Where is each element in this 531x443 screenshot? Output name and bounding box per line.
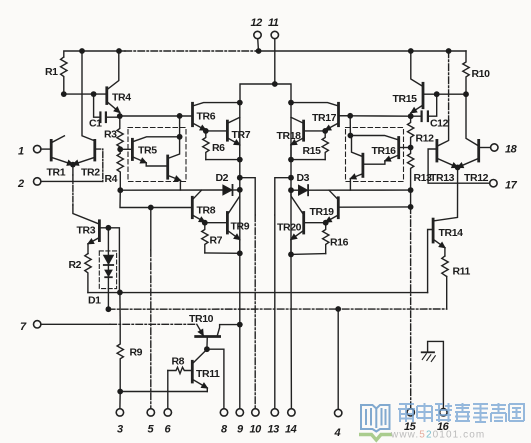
- svg-text:TR1: TR1: [47, 167, 66, 179]
- transistor TR5b: [166, 156, 169, 178]
- node common emitters TR12 TR13: [455, 165, 461, 171]
- TR16 dashed box: [346, 128, 404, 182]
- svg-text:2: 2: [17, 178, 24, 190]
- node R9 bottom: [117, 389, 123, 395]
- svg-text:TR10: TR10: [189, 313, 214, 325]
- node TR16 collector: [348, 133, 354, 139]
- svg-text:D2: D2: [216, 172, 229, 184]
- transistor TR20: [302, 213, 305, 234]
- wire TR5 collectors up to C1 line: [179, 116, 181, 137]
- svg-text:11: 11: [268, 17, 279, 29]
- svg-text:17: 17: [505, 180, 518, 192]
- watermark book base: [359, 435, 392, 441]
- wire TR13 base to pin 17: [428, 149, 490, 183]
- wire bias line R4 to D2: [120, 189, 223, 191]
- pin 11: [271, 31, 278, 38]
- node C1 bias: [117, 113, 123, 119]
- D1 bottom line to R11 bottom: [108, 308, 446, 310]
- wire R6 bottom to central node: [206, 159, 240, 161]
- wire TR8 emitter to TR9 base: [205, 222, 228, 224]
- node TR4 base: [61, 91, 67, 97]
- transistor TR2: [93, 140, 96, 160]
- svg-text:TR20: TR20: [277, 222, 302, 234]
- resistor R16: [323, 223, 329, 254]
- svg-text:R11: R11: [453, 266, 471, 278]
- transistor TR14: [432, 219, 435, 242]
- transistor TR17: [337, 103, 340, 125]
- svg-text:3: 3: [117, 424, 123, 436]
- node pin4 top: [335, 306, 341, 312]
- capacitor C1 wire left: [94, 94, 100, 117]
- wire TR15 base to R10 bottom: [423, 93, 466, 95]
- transistor TR12: [477, 140, 480, 161]
- node D3 anode: [288, 187, 294, 193]
- resistor R11: [442, 256, 448, 277]
- resistor R4: [117, 149, 123, 190]
- resistor R8: [168, 367, 193, 373]
- wire R13 node down: [410, 190, 412, 207]
- node pin11 bridge: [272, 81, 278, 87]
- pin 8: [220, 409, 227, 416]
- wire TR3 base to D1 top and corner: [99, 228, 119, 293]
- wire pin11 down to bridge: [274, 39, 276, 84]
- node pin10 branch: [237, 175, 243, 181]
- wire TR7 emitter to node: [239, 145, 241, 160]
- central vertical right (pin 14 line): [290, 103, 292, 409]
- wire TR5b emitter down to bias line: [179, 180, 181, 190]
- svg-text:TR19: TR19: [310, 206, 335, 218]
- svg-text:TR3: TR3: [77, 225, 96, 237]
- wire TR14 base: [428, 230, 434, 293]
- diode D1 upper: [103, 255, 113, 264]
- pin 18: [491, 144, 498, 151]
- wire R15 bottom to central node: [291, 159, 325, 161]
- resistor R15: [322, 131, 328, 160]
- wire pin16 to ground: [428, 341, 444, 408]
- pin 10: [252, 409, 259, 416]
- wire bias node to TR6 base: [120, 115, 192, 117]
- transistor TR9: [226, 213, 229, 234]
- svg-text:13: 13: [268, 424, 280, 436]
- resistor R13: [408, 148, 414, 191]
- wire R9 node down to pin 3: [119, 392, 121, 409]
- node pin13 branch: [288, 175, 294, 181]
- wire R1 bottom to TR4 base: [64, 93, 106, 95]
- resistor R9: [117, 324, 123, 391]
- pin 15 line: [410, 207, 412, 409]
- svg-text:TR16: TR16: [372, 145, 397, 157]
- svg-text:6: 6: [165, 424, 172, 436]
- transistor TR15: [422, 83, 425, 107]
- wire bridge to central verticals: [240, 84, 291, 103]
- svg-text:12: 12: [251, 17, 263, 29]
- TR5 dashed box: [128, 128, 186, 182]
- svg-text:R10: R10: [472, 68, 491, 80]
- node D1 bottom: [106, 306, 112, 312]
- wire pin1 to TR1 base: [41, 148, 51, 150]
- node R15 bottom: [288, 157, 294, 163]
- pin 13: [271, 409, 278, 416]
- resistor R3: [117, 116, 123, 149]
- node D2 cathode: [237, 187, 243, 193]
- node C12 bias: [347, 113, 353, 119]
- wire TR2 base to pin 2: [95, 149, 103, 181]
- node TR5 collector: [177, 134, 183, 140]
- pin 2: [34, 178, 41, 185]
- wire TR19 base to R13 node: [338, 206, 410, 208]
- top supply rail: [64, 51, 125, 57]
- wire TR6 emitter to TR7 base: [206, 130, 228, 132]
- svg-text:R7: R7: [210, 235, 223, 247]
- bias line R2 to TR14 base: [88, 292, 428, 294]
- svg-text:TR5: TR5: [138, 145, 157, 157]
- wire TR17 base from bias line: [339, 115, 351, 117]
- wire D3 node to pin13 line: [275, 178, 291, 215]
- wire pin5 vertical upper: [150, 208, 152, 251]
- svg-text:R2: R2: [69, 259, 82, 271]
- wire R16 bottom to central node: [291, 253, 326, 256]
- pin 9: [236, 409, 243, 416]
- pin 6: [164, 409, 171, 416]
- transistor TR19: [337, 198, 340, 218]
- svg-text:9: 9: [237, 424, 244, 436]
- transistor TR7: [226, 121, 229, 140]
- svg-text:10: 10: [250, 424, 263, 436]
- node TR10 base: [204, 346, 210, 352]
- watermark book icon: [361, 405, 390, 432]
- svg-text:TR13: TR13: [430, 172, 455, 184]
- svg-text:5: 5: [148, 424, 155, 436]
- svg-text:R15: R15: [303, 145, 322, 157]
- wire C12 right to TR15 base line: [428, 94, 436, 116]
- wire TR2 collector to rail: [82, 51, 95, 141]
- svg-text:8: 8: [221, 424, 228, 436]
- svg-text:18: 18: [505, 144, 518, 156]
- svg-text:TR8: TR8: [197, 205, 216, 217]
- wire TR19 emitter to TR20 base: [304, 222, 326, 224]
- wire TR10 base node to pin 8: [207, 349, 224, 408]
- pin 14: [288, 409, 295, 416]
- wire TR16a emitter to TR16b base: [363, 161, 385, 164]
- wire TR16 collectors up to C12 line: [349, 116, 351, 136]
- svg-text:R8: R8: [172, 356, 185, 368]
- pin 1: [34, 145, 41, 152]
- pin 15: [407, 409, 414, 416]
- wire TR11 emitter line to R9 node: [120, 391, 207, 393]
- svg-text:TR17: TR17: [312, 112, 337, 124]
- svg-text:TR11: TR11: [196, 368, 220, 380]
- wire TR5a emitter to TR5b base: [146, 163, 168, 166]
- svg-text:R12: R12: [416, 133, 435, 145]
- svg-text:R1: R1: [45, 66, 58, 78]
- wire C1 right to R3 node: [106, 116, 120, 117]
- node TR17 emitter: [322, 128, 328, 134]
- transistor TR16b: [361, 154, 364, 176]
- central vertical left (pin 9 line): [239, 103, 241, 409]
- svg-text:R16: R16: [330, 237, 349, 249]
- wire pin 7 to TR10 emitter: [41, 323, 110, 325]
- wire pin5 vertical lower: [150, 250, 152, 409]
- node bias R2 line: [117, 290, 123, 296]
- wire TR13 collector to rail: [448, 51, 450, 120]
- transistor TR13: [435, 140, 438, 161]
- transistor TR5a: [131, 139, 134, 159]
- resistor R7: [202, 223, 208, 253]
- node pin5 top: [148, 205, 154, 211]
- wire TR12 collector to R10 node: [466, 94, 478, 145]
- wire TR5 base tap: [120, 148, 132, 150]
- svg-text:D3: D3: [297, 172, 310, 184]
- wire TR9 emitter to node: [239, 240, 241, 254]
- capacitor C1: [99, 113, 101, 123]
- ground symbol: [422, 351, 434, 353]
- node R12 R13: [408, 145, 414, 151]
- transistor TR18: [302, 121, 305, 140]
- capacitor C12: [421, 112, 423, 122]
- wire D2 node to pin10 line: [240, 178, 255, 215]
- wire C12 line: [339, 115, 422, 117]
- diode D1 lower: [105, 270, 112, 277]
- pin 12: [254, 31, 261, 38]
- svg-text:TR9: TR9: [231, 221, 250, 233]
- svg-text:TR2: TR2: [81, 167, 100, 179]
- svg-text:7: 7: [20, 321, 27, 333]
- svg-text:1: 1: [18, 146, 24, 158]
- resistor R10: [463, 51, 469, 94]
- node TR10 collector: [237, 322, 243, 328]
- node D1 top: [106, 225, 112, 231]
- node TR6 emitter: [203, 128, 209, 134]
- watermark chinese text row: [398, 403, 524, 422]
- transistor TR6: [191, 103, 194, 125]
- wire common emitters down to TR3 collector: [72, 165, 74, 175]
- resistor R2: [85, 254, 91, 293]
- wire R4 bottom to TR8 base: [120, 190, 192, 207]
- resistor R6: [203, 131, 209, 160]
- pin 13 line: [274, 215, 276, 409]
- wire D3 cathode line to R13: [308, 189, 411, 191]
- svg-text:R4: R4: [105, 173, 118, 185]
- D1 wire from TR3 base through diodes: [107, 228, 109, 309]
- svg-text:TR15: TR15: [393, 93, 418, 105]
- wire TR17 emitter to TR18 base: [304, 130, 326, 132]
- resistor R12: [408, 116, 414, 147]
- D1 dashed box: [99, 251, 116, 289]
- pin 10 line: [254, 215, 256, 409]
- wire R9 top to bias corner: [119, 292, 121, 324]
- wire R7 bottom to central node: [205, 252, 240, 254]
- wire TR16 base tap: [399, 147, 411, 149]
- pin 16: [440, 409, 447, 416]
- svg-text:TR6: TR6: [197, 111, 216, 123]
- svg-text:www.520101.com: www.520101.com: [390, 430, 485, 441]
- wire pin12 to rail: [257, 39, 260, 51]
- svg-text:TR4: TR4: [112, 92, 131, 104]
- svg-text:R9: R9: [130, 347, 143, 359]
- node TR19 emitter: [323, 220, 329, 226]
- pin 3: [116, 409, 123, 416]
- transistor TR4: [105, 88, 108, 104]
- svg-text:D1: D1: [88, 295, 101, 307]
- svg-text:TR7: TR7: [232, 129, 251, 141]
- resistor R1: [61, 57, 67, 94]
- transistor TR16a: [397, 138, 400, 158]
- svg-text:TR14: TR14: [439, 227, 464, 239]
- svg-text:C1: C1: [89, 118, 102, 130]
- svg-text:C12: C12: [430, 118, 449, 130]
- pin 4: [335, 409, 342, 416]
- node R6 bottom: [237, 157, 243, 163]
- wire TR18 emitter to node: [290, 145, 292, 160]
- wire TR12 base to pin 18: [479, 147, 491, 149]
- node R7 bottom: [237, 250, 243, 256]
- diode D2: [223, 185, 233, 195]
- node rail branches: [237, 100, 243, 106]
- svg-text:14: 14: [285, 424, 297, 436]
- transistor TR8: [191, 197, 194, 217]
- transistor TR3: [98, 221, 101, 241]
- pin 5: [147, 409, 154, 416]
- svg-text:R3: R3: [104, 129, 117, 141]
- svg-text:TR12: TR12: [464, 172, 489, 184]
- node common emitters TR1 TR2: [70, 162, 76, 168]
- wire TR20 emitter to node: [290, 240, 292, 255]
- transistor TR10 (pnp, rotated): [196, 335, 220, 338]
- transistor TR11: [191, 361, 194, 382]
- svg-text:4: 4: [334, 427, 341, 439]
- diode D3: [298, 185, 308, 195]
- pin 7: [34, 321, 41, 328]
- junction dots: [79, 48, 85, 54]
- pin 17: [490, 180, 497, 187]
- svg-text:R6: R6: [212, 142, 225, 154]
- node TR8 emitter: [202, 220, 208, 226]
- wire pin4 vertical: [337, 309, 339, 409]
- transistor TR1: [50, 140, 53, 160]
- wire pin 6 up to R8: [167, 371, 169, 409]
- wire common emitters to TR14 collector: [434, 167, 458, 220]
- node R16 bottom: [288, 252, 294, 258]
- node R3 R4: [117, 146, 123, 152]
- wire TR16b emitter down to D3 line: [349, 179, 351, 191]
- svg-text:TR18: TR18: [277, 130, 302, 142]
